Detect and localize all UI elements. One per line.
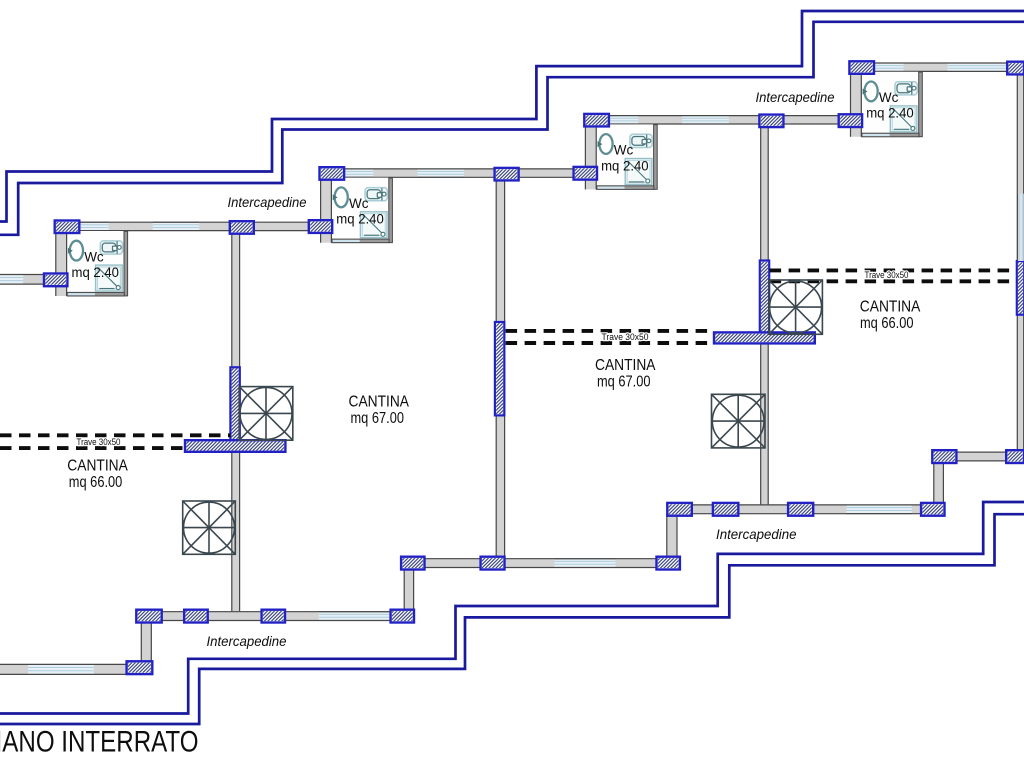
right end wall bbox=[1017, 73, 1024, 451]
dividing wall 1 (between cantina 1 and 2) bbox=[231, 232, 240, 611]
svg-text:Intercapedine: Intercapedine bbox=[228, 195, 307, 210]
circular vent symbol B1 bbox=[183, 501, 236, 554]
far-left bottom wall vent window bbox=[28, 665, 94, 675]
WC room module 1 shower bbox=[96, 265, 123, 291]
WC room module 2 shower bbox=[360, 212, 387, 238]
beam line (trave) 2 lower bbox=[506, 341, 715, 345]
svg-text:Intercapedine: Intercapedine bbox=[716, 527, 797, 542]
far-left bottom wall bbox=[0, 664, 152, 675]
module 2 bottom wall bbox=[401, 558, 679, 568]
svg-text:Trave 30x50: Trave 30x50 bbox=[77, 437, 121, 447]
svg-text:mq 66.00: mq 66.00 bbox=[69, 474, 123, 491]
module 3 bottom wall end block bbox=[921, 503, 944, 516]
module 3 bottom wall vent window bbox=[847, 505, 912, 514]
module 2 bottom wall block b bbox=[481, 557, 505, 570]
module 1 top wall bbox=[55, 222, 333, 231]
svg-text:Wc: Wc bbox=[879, 90, 899, 106]
module 1 top wall vent window 2 bbox=[153, 222, 200, 230]
WC room module 3 hatched block at left wall bbox=[574, 167, 597, 180]
WC room module 1 bottom wall with vent bbox=[67, 292, 124, 296]
dividing wall 2 vent bbox=[495, 322, 504, 415]
svg-text:CANTINA: CANTINA bbox=[67, 458, 128, 475]
beam line (trave) 2 upper bbox=[506, 329, 715, 333]
WC room module 2 hatched block at left wall bbox=[309, 220, 332, 233]
circular vent symbol B2 bbox=[712, 394, 766, 448]
dividing wall 3 (between cantina 3 and 4) bbox=[760, 126, 769, 505]
svg-text:Wc: Wc bbox=[614, 143, 634, 159]
WC room module 4 hatched block at left wall bbox=[839, 114, 862, 127]
module 2 bottom connector wall bbox=[404, 568, 414, 612]
WC room module 3 toilet bbox=[630, 134, 652, 147]
module 2 top wall vent window 2 bbox=[418, 169, 465, 177]
module 4 top wall vent window 1 bbox=[874, 63, 904, 71]
beam line (trave) 1 lower bbox=[0, 446, 185, 450]
module 1 top wall corner block bbox=[55, 221, 80, 234]
lower boundary line outer bbox=[0, 502, 1024, 714]
WC room module 3 interior floor bbox=[597, 124, 654, 186]
module 3 top wall corner block bbox=[584, 114, 609, 127]
WC room module 4 toilet bbox=[895, 82, 917, 95]
svg-text:mq 2.40: mq 2.40 bbox=[601, 158, 649, 174]
circular vent symbol A2 bbox=[769, 280, 823, 334]
svg-text:mq 67.00: mq 67.00 bbox=[597, 373, 651, 390]
module 3 top wall vent window 2 bbox=[682, 116, 729, 124]
module 4 bottom wall block bbox=[932, 450, 956, 463]
far-left top stub wall bbox=[0, 274, 55, 285]
module 1 bottom wall bbox=[136, 611, 414, 621]
upper boundary line inner bbox=[0, 22, 1024, 235]
WC room module 1 right wall bbox=[124, 231, 128, 296]
right end wall window segment bbox=[1017, 194, 1023, 261]
WC room module 4 bottom wall with vent bbox=[862, 133, 919, 137]
dividing wall 2 (between cantina 2 and 3) bbox=[496, 179, 505, 558]
module 1 bottom-left connector wall bbox=[141, 621, 152, 664]
circular vent symbol A1 bbox=[239, 387, 293, 441]
svg-text:mq 2.40: mq 2.40 bbox=[336, 212, 384, 228]
module 3 top wall vent window 1 bbox=[609, 116, 639, 124]
module 1 top wall junction block bbox=[230, 221, 254, 234]
module 3 top wall bbox=[584, 115, 862, 124]
module 4 top wall end junction block bbox=[1007, 62, 1024, 75]
svg-text:mq 2.40: mq 2.40 bbox=[72, 265, 120, 281]
module 4 top wall vent window 2 bbox=[947, 63, 1007, 71]
WC room module 4 interior floor bbox=[862, 72, 919, 134]
module 1 bottom wall block c bbox=[262, 610, 285, 623]
module 2 top wall junction block bbox=[495, 168, 519, 181]
svg-text:mq 67.00: mq 67.00 bbox=[351, 410, 405, 427]
WC room module 4 shower bbox=[890, 106, 917, 132]
WC room module 1 toilet bbox=[100, 241, 122, 254]
WC room module 1 interior floor bbox=[67, 231, 124, 293]
module 2 top wall vent window 1 bbox=[344, 169, 374, 177]
module 1 bottom wall block a bbox=[136, 610, 161, 623]
module 2 bottom wall end block bbox=[657, 557, 680, 570]
WC room module 2 bottom wall with vent bbox=[332, 239, 389, 243]
WC room module 2 left wall lower part bbox=[320, 233, 332, 243]
WC room module 3 bottom wall with vent bbox=[597, 186, 654, 190]
module 4 bottom wall bbox=[932, 452, 1024, 462]
WC room module 2 sink bbox=[333, 187, 348, 207]
WC room module 3 sink bbox=[598, 134, 613, 154]
svg-text:Trave 30x50: Trave 30x50 bbox=[602, 332, 649, 342]
WC room module 4 left wall bbox=[850, 74, 862, 115]
module 2 bottom wall vent window bbox=[554, 559, 615, 568]
WC room module 4 right wall bbox=[919, 72, 923, 137]
module 3 top wall junction block bbox=[759, 115, 783, 128]
module 2 top wall corner block bbox=[320, 167, 345, 180]
module 2 bottom wall block a bbox=[401, 557, 424, 570]
beam line (trave) 1 upper bbox=[0, 433, 231, 437]
module 3 bottom connector wall bbox=[666, 514, 677, 559]
hatched beam trave 30x50 no.2 bbox=[714, 332, 815, 343]
svg-text:Wc: Wc bbox=[84, 249, 104, 265]
svg-text:Trave 30x50: Trave 30x50 bbox=[865, 270, 909, 280]
svg-text:Intercapedine: Intercapedine bbox=[207, 634, 287, 649]
module 3 bottom wall bbox=[667, 504, 944, 514]
WC room module 3 right wall bbox=[654, 125, 658, 190]
svg-text:mq 2.40: mq 2.40 bbox=[866, 106, 914, 122]
WC room module 3 left wall lower part bbox=[585, 180, 597, 190]
svg-text:CANTINA: CANTINA bbox=[349, 394, 410, 411]
WC room module 2 left wall bbox=[320, 180, 332, 221]
far-left stub wall vent window bbox=[0, 275, 23, 284]
dividing wall 3 vent bbox=[760, 261, 769, 335]
module 1 bottom wall block b bbox=[184, 610, 208, 623]
module 1 bottom wall vent window bbox=[319, 612, 389, 621]
WC room module 2 right wall bbox=[389, 178, 393, 243]
svg-text:Wc: Wc bbox=[349, 196, 369, 212]
module 4 top wall corner block bbox=[849, 61, 874, 74]
right end wall vent bbox=[1017, 261, 1024, 315]
module 3 bottom wall block c bbox=[788, 503, 813, 516]
svg-text:CANTINA: CANTINA bbox=[860, 299, 921, 316]
beam line (trave) 3 upper bbox=[770, 268, 1017, 272]
svg-text:CANTINA: CANTINA bbox=[595, 357, 656, 374]
module 1 top wall vent window 1 bbox=[79, 222, 109, 230]
WC room module 1 left wall bbox=[55, 233, 67, 274]
svg-text:PIANO INTERRATO: PIANO INTERRATO bbox=[0, 725, 199, 758]
WC room module 3 shower bbox=[625, 159, 652, 185]
beam line (trave) 3 lower bbox=[770, 279, 1017, 283]
far-left bottom wall block bbox=[127, 661, 153, 674]
WC room module 1 sink bbox=[68, 241, 83, 261]
module 4 bottom connector wall bbox=[933, 461, 944, 505]
upper boundary line outer bbox=[0, 11, 1024, 222]
module 3 bottom wall block b bbox=[713, 503, 738, 516]
module 3 bottom wall block a bbox=[667, 503, 692, 516]
svg-text:Intercapedine: Intercapedine bbox=[756, 90, 835, 105]
WC room module 4 left wall lower part bbox=[850, 127, 862, 137]
dividing wall 1 vent bbox=[230, 367, 239, 441]
WC room module 4 sink bbox=[863, 82, 878, 102]
module 2 top wall bbox=[320, 168, 598, 177]
WC room module 1 left wall lower part bbox=[55, 286, 67, 296]
svg-text:mq 66.00: mq 66.00 bbox=[860, 315, 914, 332]
module 4 top wall bbox=[849, 63, 1024, 72]
WC room module 2 toilet bbox=[365, 188, 387, 201]
hatched beam trave 30x50 no.1 bbox=[185, 440, 285, 452]
module 1 bottom wall end block bbox=[391, 610, 414, 623]
module 4 bottom wall end block bbox=[1006, 450, 1024, 463]
WC room module 1 hatched block at left wall bbox=[44, 274, 67, 287]
WC room module 2 interior floor bbox=[332, 178, 389, 240]
WC room module 3 left wall bbox=[585, 126, 597, 167]
lower boundary line inner bbox=[0, 514, 1024, 724]
